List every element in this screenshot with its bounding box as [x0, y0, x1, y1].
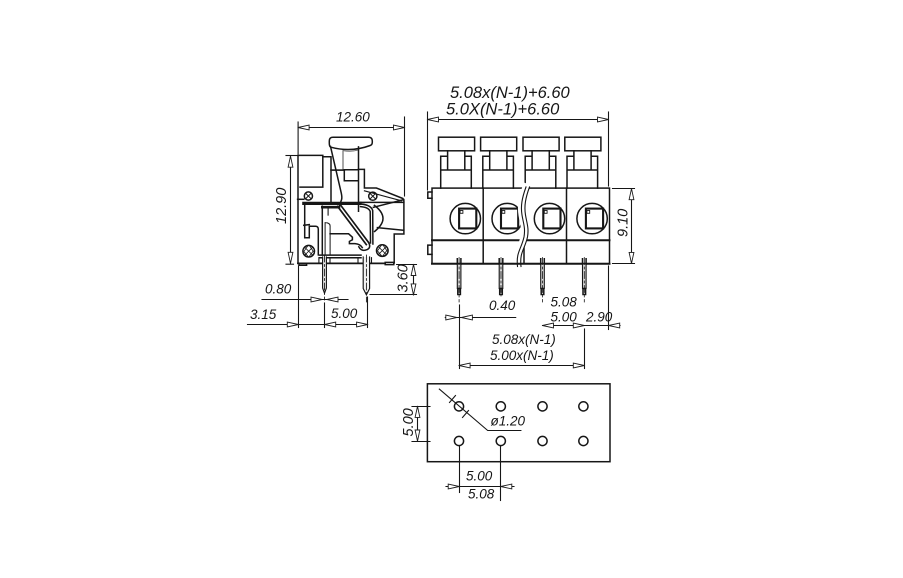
right pin (side view)	[363, 255, 369, 302]
push button 1	[439, 137, 475, 188]
dimension 2.90	[584, 266, 620, 330]
svg-text:12.90: 12.90	[274, 188, 290, 224]
push button 3	[523, 137, 559, 188]
svg-text:5.08x(N-1)+6.60: 5.08x(N-1)+6.60	[450, 84, 571, 102]
lever stem	[331, 147, 359, 211]
left nubs	[428, 192, 432, 254]
hole row bottom	[454, 436, 588, 445]
svg-text:2.90: 2.90	[585, 310, 613, 325]
dimension 9.10 right	[613, 189, 635, 264]
clamp spring diagonal band	[338, 205, 370, 251]
svg-text:0.40: 0.40	[489, 298, 516, 313]
dimension 3.60 (side view right)	[370, 265, 417, 295]
push button 2	[481, 137, 517, 188]
front view pins	[457, 258, 586, 303]
base plate lines	[319, 255, 372, 263]
left pin (side view)	[323, 255, 327, 300]
screw/rivet circle upper right (hatched)	[369, 192, 377, 200]
cell dividers	[483, 188, 566, 264]
clamp lower molded detail	[330, 234, 362, 248]
svg-text:0.80: 0.80	[265, 282, 292, 297]
dimension 0.40	[445, 315, 515, 320]
clamp cage left wall	[322, 206, 339, 255]
dimension 5.08x(N-1) bottom	[459, 305, 584, 369]
footprint rectangle	[427, 384, 610, 462]
dimension 0.80 (pin width)	[262, 297, 348, 302]
internal shelf (thick horizontal)	[298, 191, 404, 204]
hole row top	[454, 402, 588, 411]
side view body outline	[298, 155, 404, 265]
dimension 3.15	[248, 266, 325, 328]
svg-text:5.00: 5.00	[401, 408, 417, 436]
left release hook	[304, 205, 330, 255]
lever housing walls	[323, 157, 359, 203]
svg-text:9.10: 9.10	[616, 209, 632, 237]
svg-text:5.00: 5.00	[466, 469, 493, 484]
dimension 12.90 (side view left)	[286, 156, 297, 265]
wire entry circle 3 with square	[534, 203, 564, 233]
dimension 5.08x(N-1)+6.60 top	[428, 112, 609, 190]
dimension 12.60 (side view top)	[298, 117, 404, 196]
svg-text:12.60: 12.60	[336, 110, 370, 125]
screw/rivet circle lower right (hatched)	[377, 245, 389, 257]
break line (partial view squiggle)	[517, 187, 529, 267]
svg-text:5.0X(N-1)+6.60: 5.0X(N-1)+6.60	[446, 101, 560, 119]
spring strip top bend	[359, 204, 373, 244]
svg-text:3.60: 3.60	[396, 264, 412, 292]
front body bottom edge emphasis	[432, 263, 610, 265]
front view body	[432, 188, 610, 264]
screw/rivet circle lower left (hatched)	[303, 245, 315, 257]
wire entry circle 2 with square	[492, 203, 522, 233]
svg-text:5.00x(N-1): 5.00x(N-1)	[490, 348, 554, 363]
dimension 5.00 bottom-view left	[412, 406, 430, 441]
wire entry circle 1 with square	[450, 203, 480, 233]
dimension 5.08 / 5.00 (pin pitch)	[543, 323, 585, 328]
dimension 5.00 (side view pins pitch)	[325, 297, 368, 328]
push button 4	[565, 137, 601, 188]
svg-text:5.08x(N-1): 5.08x(N-1)	[492, 332, 556, 347]
wire entry circle 4 with square	[577, 203, 607, 233]
svg-text:5.08: 5.08	[468, 487, 495, 502]
dimension 5.00/5.08 bottom-view bottom	[446, 446, 514, 501]
lever slanted front edge	[331, 146, 342, 206]
lever cap	[329, 137, 372, 151]
leader line for hole diameter	[439, 389, 521, 430]
svg-text:3.15: 3.15	[250, 307, 277, 322]
svg-text:5.00: 5.00	[331, 306, 358, 321]
svg-text:ø1.20: ø1.20	[491, 414, 526, 429]
svg-text:5.08: 5.08	[551, 295, 578, 310]
svg-text:5.00: 5.00	[551, 310, 578, 325]
screw/rivet circle upper left (hatched)	[304, 192, 312, 200]
wire funnel curve	[373, 200, 403, 232]
